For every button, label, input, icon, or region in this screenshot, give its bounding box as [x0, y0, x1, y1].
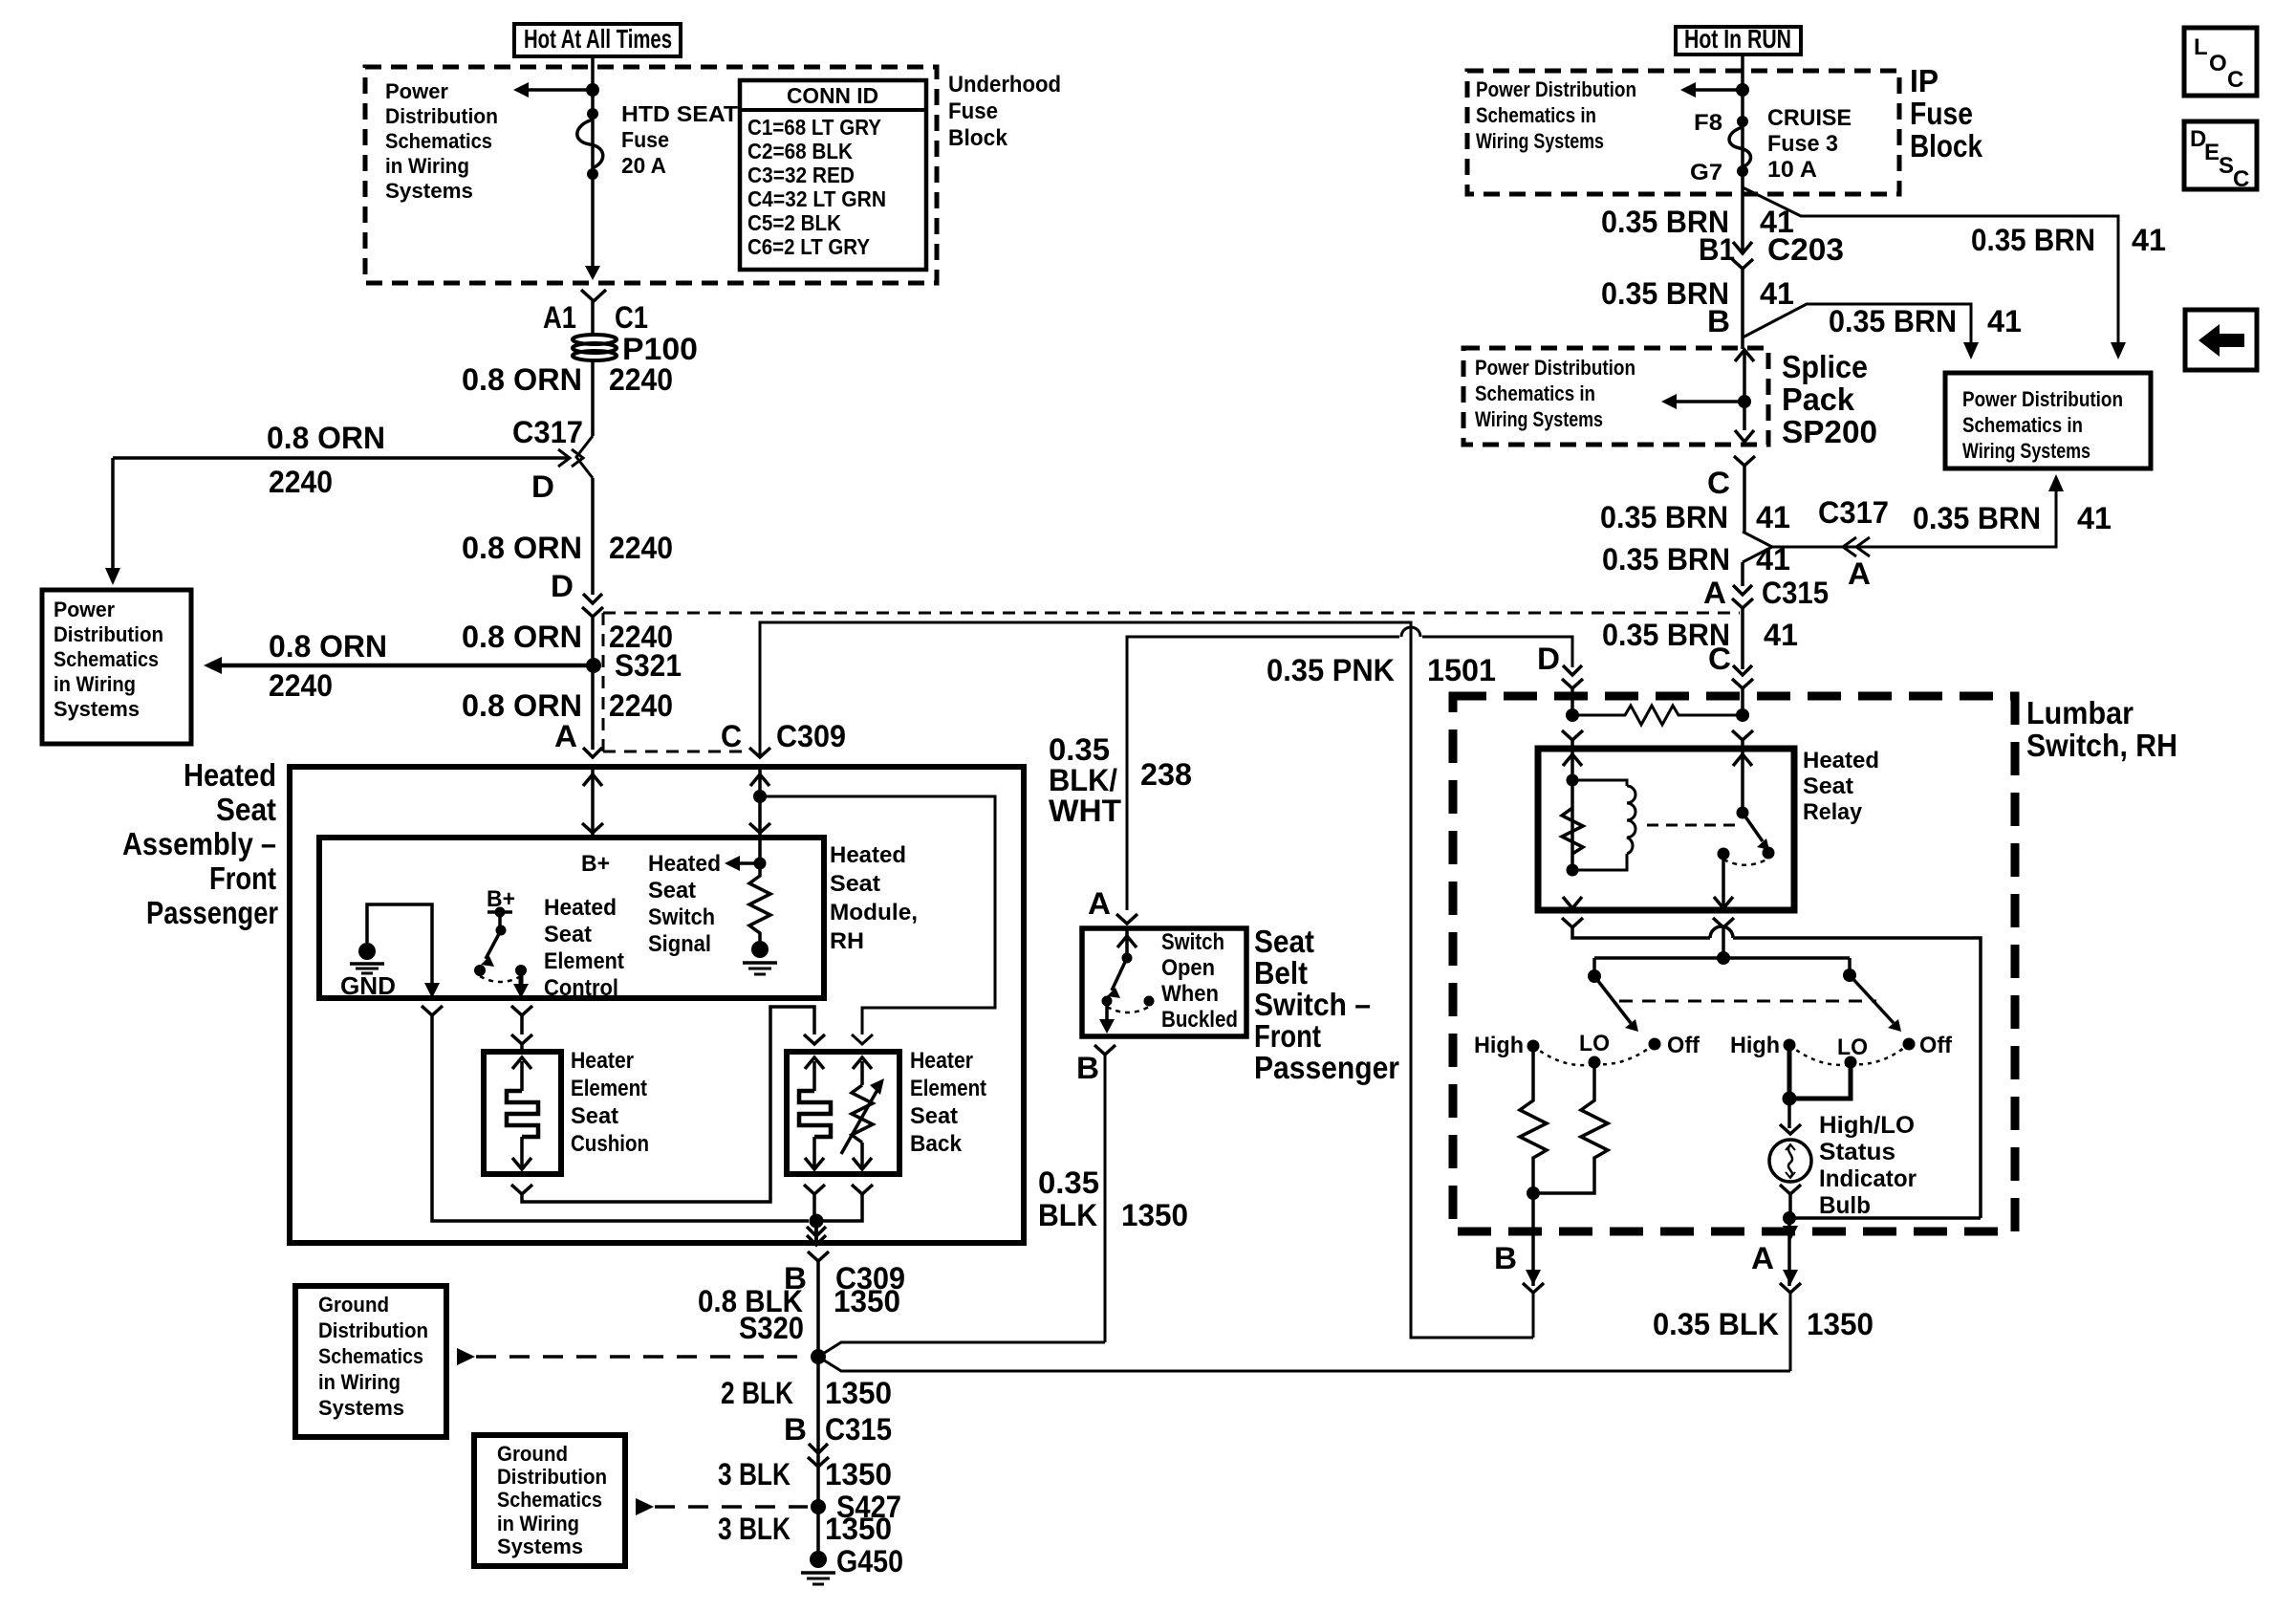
svg-text:0.8 ORN: 0.8 ORN: [462, 362, 582, 397]
svg-text:3 BLK: 3 BLK: [718, 1457, 791, 1491]
svg-text:A: A: [1703, 576, 1726, 610]
svg-text:B+: B+: [581, 851, 610, 877]
connector C315 pin B: [784, 1412, 892, 1467]
wire: bulb return: [1780, 1185, 1981, 1225]
svg-text:Heated: Heated: [830, 842, 906, 868]
svg-text:Fuse: Fuse: [948, 98, 998, 124]
svg-text:0.8 ORN: 0.8 ORN: [269, 629, 387, 664]
svg-text:1501: 1501: [1427, 653, 1496, 687]
wire: B branch to power distribution: [1707, 304, 2022, 359]
svg-text:P100: P100: [622, 332, 698, 366]
svg-text:Assembly –: Assembly –: [122, 826, 276, 861]
svg-text:1350: 1350: [825, 1457, 892, 1491]
svg-text:Front: Front: [209, 860, 276, 896]
svg-text:C6=2 LT GRY: C6=2 LT GRY: [747, 234, 870, 259]
value label: 0.8 ORN 2240: [462, 620, 673, 654]
svg-text:Power: Power: [385, 79, 448, 103]
svg-text:L: L: [2194, 34, 2208, 60]
svg-text:Distribution: Distribution: [385, 104, 498, 128]
svg-text:Fuse: Fuse: [621, 127, 669, 152]
connector: lumbar pin D: [1537, 642, 1583, 688]
svg-text:Bulb: Bulb: [1819, 1192, 1871, 1219]
svg-text:C1=68 LT GRY: C1=68 LT GRY: [747, 115, 881, 140]
wire: [1741, 608, 1744, 669]
svg-text:in Wiring: in Wiring: [54, 672, 136, 696]
svg-text:CRUISE: CRUISE: [1767, 105, 1852, 131]
component box: Heated Seat Module RH: [319, 838, 918, 998]
relay coil branch: [1562, 749, 1635, 908]
value label: 2 BLK 1350: [721, 1376, 892, 1410]
value label: 0.8 ORN 2240 (left branch): [267, 421, 385, 499]
switch positions right: High LO Off: [1730, 1033, 1953, 1069]
svg-text:in Wiring: in Wiring: [497, 1512, 579, 1535]
svg-text:Power Distribution: Power Distribution: [1476, 77, 1636, 101]
svg-text:B: B: [1076, 1051, 1099, 1085]
connector pin D (C309 harness): [551, 569, 603, 617]
wire: GND return: [367, 904, 440, 998]
wire: dashed lead to S427: [636, 1498, 808, 1515]
node: fuse block tap: [586, 83, 599, 97]
IP Fuse Block dashed box: [1467, 71, 1899, 194]
svg-text:Open: Open: [1161, 955, 1215, 981]
svg-text:Splice: Splice: [1782, 349, 1868, 384]
Splice Pack dashed box: [1463, 348, 1768, 445]
label: Heated Seat Switch Signal: [648, 851, 721, 957]
note: Power Distribution Schematics in Wiring Systems (underhood): [385, 79, 498, 203]
switch: left mode selector: [1594, 976, 1876, 1032]
note box: Ground Distribution Schematics in Wiring Systems (upper): [295, 1286, 446, 1437]
svg-text:HTD SEAT: HTD SEAT: [621, 101, 738, 126]
value label: 0.35 BLK/WHT 238: [1049, 732, 1192, 828]
svg-text:Relay: Relay: [1803, 799, 1863, 825]
svg-text:SP200: SP200: [1782, 414, 1877, 449]
wire: [591, 478, 595, 595]
svg-text:1350: 1350: [825, 1512, 892, 1546]
svg-text:Underhood: Underhood: [948, 72, 1061, 98]
svg-text:C1: C1: [615, 300, 648, 335]
svg-text:2240: 2240: [609, 688, 673, 723]
svg-text:BLK/: BLK/: [1049, 763, 1117, 797]
svg-text:Seat: Seat: [830, 871, 880, 897]
svg-text:Systems: Systems: [318, 1396, 404, 1420]
splice S320: [739, 1311, 826, 1364]
svg-text:C315: C315: [1762, 576, 1829, 610]
svg-text:0.8 ORN: 0.8 ORN: [267, 421, 385, 455]
wire: cushion return to seat back: [511, 1007, 825, 1202]
ground: GND pin: [340, 943, 396, 1000]
label box: Hot In RUN: [1676, 24, 1801, 54]
wire: [591, 301, 595, 335]
svg-text:0.8 ORN: 0.8 ORN: [462, 620, 582, 654]
svg-text:Systems: Systems: [54, 697, 140, 721]
svg-text:41: 41: [1987, 304, 2022, 338]
svg-text:238: 238: [1140, 757, 1192, 792]
wire: switch signal into module: [749, 767, 995, 1044]
ground: module internal: [743, 941, 777, 974]
connector C317 pin A (right branch): [1743, 474, 2112, 591]
svg-text:0.35 BLK: 0.35 BLK: [1653, 1307, 1779, 1341]
svg-text:Wiring Systems: Wiring Systems: [1475, 407, 1603, 431]
node: D junction: [1566, 708, 1579, 722]
svg-text:D: D: [1537, 642, 1560, 676]
svg-text:Ground: Ground: [497, 1442, 568, 1466]
svg-text:C2=68 BLK: C2=68 BLK: [747, 139, 853, 163]
fuse: CRUISE Fuse 3 10 A: [1690, 105, 1852, 185]
svg-text:Power Distribution: Power Distribution: [1962, 387, 2123, 411]
label: Seat Belt Switch Front Passenger: [1254, 924, 1399, 1085]
svg-text:1350: 1350: [1121, 1198, 1188, 1232]
CONN ID table: [740, 80, 926, 270]
svg-text:G7: G7: [1690, 160, 1722, 185]
svg-text:C: C: [1708, 642, 1731, 676]
svg-text:B: B: [1707, 304, 1730, 338]
Underhood Fuse Block dashed box: [365, 67, 937, 283]
switch positions left: High LO Off: [1474, 1031, 1700, 1069]
wire: [591, 360, 595, 436]
svg-text:IP: IP: [1910, 63, 1939, 98]
svg-text:Switch: Switch: [1161, 929, 1224, 955]
svg-text:Heater: Heater: [910, 1048, 973, 1074]
svg-text:Heated: Heated: [648, 851, 721, 877]
svg-text:1350: 1350: [834, 1284, 900, 1318]
svg-text:Schematics in: Schematics in: [1962, 413, 2083, 437]
wire: 0.8 BLK 1350: [698, 1261, 900, 1566]
bulb: High/LO status indicator: [1769, 1112, 1917, 1219]
wire: relay output to mode switches: [1588, 918, 1856, 983]
resistor: LO feed: [1533, 1062, 1608, 1193]
wire: High2/LO2 join to bulb: [1780, 1045, 1851, 1134]
connector C309 pin C: [721, 719, 846, 757]
svg-text:Status: Status: [1819, 1139, 1895, 1165]
svg-text:0.8 ORN: 0.8 ORN: [462, 531, 582, 565]
svg-text:Element: Element: [544, 948, 624, 974]
svg-text:Back: Back: [910, 1131, 963, 1157]
resistor: High feed: [1520, 1046, 1547, 1193]
label box: Hot At All Times: [514, 24, 681, 56]
svg-text:Element: Element: [571, 1076, 647, 1101]
svg-text:C203: C203: [1767, 232, 1844, 267]
svg-text:F8: F8: [1694, 110, 1722, 136]
svg-text:0.35 BRN: 0.35 BRN: [1600, 500, 1728, 534]
svg-text:O: O: [2209, 51, 2227, 76]
node: IP tap: [1736, 83, 1749, 97]
svg-text:C315: C315: [825, 1412, 892, 1447]
wire: [1741, 562, 1744, 586]
note box: Ground Distribution Schematics in Wiring Systems (lower): [474, 1435, 625, 1566]
wire: circuit 1501 from C309-C to lumbar B: [760, 622, 1533, 1338]
switch: heated seat element control: [474, 886, 529, 998]
svg-text:0.8 ORN: 0.8 ORN: [462, 688, 582, 723]
value label: 0.35 BRN 41: [1602, 618, 1798, 652]
svg-text:A: A: [1088, 886, 1111, 921]
svg-text:C317: C317: [1818, 495, 1889, 530]
svg-text:Schematics: Schematics: [385, 129, 492, 153]
svg-text:Heated: Heated: [544, 895, 617, 921]
wire: [1741, 187, 1744, 251]
svg-text:in Wiring: in Wiring: [385, 154, 469, 178]
wire: lumbar pin A exit: [1751, 1218, 1801, 1371]
resistor: module pull-up: [749, 863, 770, 941]
svg-text:GND: GND: [340, 971, 396, 1000]
wire: seat back returns join: [804, 1185, 873, 1221]
svg-text:0.35 BRN: 0.35 BRN: [1602, 542, 1730, 577]
svg-text:0.35 BRN: 0.35 BRN: [1971, 223, 2095, 257]
value label: 0.35 BRN 41: [1601, 276, 1794, 311]
connector C1 pin A1: [543, 290, 648, 335]
value label: 0.8 ORN 2240: [462, 531, 673, 565]
wire: arrow to power distribution: [513, 82, 587, 98]
svg-text:When: When: [1161, 981, 1219, 1007]
wire: arrow to power distribution (IP): [1680, 82, 1737, 98]
svg-text:Off: Off: [1919, 1033, 1953, 1058]
label: Heated Seat Element Control: [544, 895, 624, 1001]
svg-text:Fuse: Fuse: [1910, 96, 1973, 131]
svg-text:20 A: 20 A: [621, 153, 666, 178]
svg-text:Seat: Seat: [910, 1103, 958, 1129]
svg-text:Heated: Heated: [1803, 748, 1879, 773]
svg-text:0.35 BRN: 0.35 BRN: [1913, 501, 2041, 535]
connector: seat belt switch pin A: [1088, 886, 1137, 924]
svg-text:Heated: Heated: [184, 757, 276, 793]
svg-text:C: C: [1707, 466, 1730, 500]
svg-text:Schematics: Schematics: [497, 1488, 602, 1512]
svg-text:B: B: [784, 1412, 807, 1447]
svg-text:RH: RH: [830, 928, 864, 954]
note box: Power Distribution Schematics in Wiring Systems (right): [1945, 373, 2151, 468]
value label: 0.35 BLK 1350 (lumbar A): [1653, 1307, 1874, 1341]
svg-text:C3=32 RED: C3=32 RED: [747, 163, 855, 187]
resistor: across relay coil inputs: [1572, 706, 1743, 725]
heater element: seat cushion: [507, 1057, 538, 1169]
svg-text:D: D: [551, 569, 574, 603]
svg-text:A: A: [1751, 1241, 1774, 1275]
wire: S321 arrow to power distribution: [204, 629, 594, 703]
svg-text:Wiring Systems: Wiring Systems: [1476, 129, 1604, 153]
svg-text:1350: 1350: [1807, 1307, 1874, 1341]
grommet P100: [573, 332, 698, 366]
svg-text:0.35: 0.35: [1038, 1165, 1099, 1200]
wire: GND return to splice: [422, 1006, 809, 1221]
svg-text:3 BLK: 3 BLK: [718, 1512, 791, 1546]
svg-text:LO: LO: [1579, 1031, 1610, 1056]
svg-text:S: S: [2219, 153, 2234, 179]
svg-text:Seat: Seat: [1803, 773, 1853, 799]
wire: [591, 617, 595, 750]
note box: Power Distribution Schematics in Wiring Systems (left): [42, 590, 191, 744]
component box: Heater Element Seat Back: [787, 1048, 986, 1174]
svg-text:Seat: Seat: [544, 922, 592, 947]
pin label B+: [581, 851, 610, 877]
node: assembly ground junction: [810, 1214, 824, 1229]
note: Power Distribution Schematics in Wiring Systems (IP): [1476, 77, 1636, 153]
component dashed box: Lumbar Switch RH: [1453, 695, 2177, 1231]
svg-text:C: C: [2233, 166, 2249, 192]
wire: hot feed vertical: [585, 56, 600, 280]
svg-text:41: 41: [2077, 501, 2112, 535]
svg-text:Fuse 3: Fuse 3: [1767, 131, 1838, 157]
connector: splice pack pin C: [1707, 456, 1755, 532]
svg-text:2240: 2240: [609, 362, 673, 397]
svg-text:Module,: Module,: [830, 900, 918, 925]
svg-text:41: 41: [1764, 618, 1798, 652]
svg-text:2240: 2240: [609, 531, 673, 565]
svg-text:Ground: Ground: [318, 1293, 389, 1317]
svg-text:C4=32 LT GRN: C4=32 LT GRN: [747, 186, 886, 211]
svg-text:E: E: [2204, 140, 2220, 165]
node: C junction: [1736, 708, 1749, 722]
svg-text:0.35: 0.35: [1049, 732, 1110, 767]
svg-text:Cushion: Cushion: [571, 1131, 649, 1157]
svg-text:BLK: BLK: [1038, 1198, 1097, 1232]
svg-text:Signal: Signal: [648, 931, 711, 957]
splice S427: [811, 1490, 901, 1524]
svg-text:Passenger: Passenger: [1254, 1050, 1399, 1085]
svg-text:Lumbar: Lumbar: [2026, 695, 2134, 730]
value label: 3 BLK 1350: [718, 1512, 892, 1546]
label: Splice Pack SP200: [1782, 349, 1877, 449]
wire: [1741, 280, 1744, 349]
svg-text:B1: B1: [1699, 232, 1735, 267]
connector C203 pin B1: [1699, 232, 1844, 280]
svg-text:G450: G450: [836, 1544, 903, 1578]
svg-text:Front: Front: [1254, 1018, 1321, 1054]
wire: switch signal arrow inside module: [725, 838, 767, 871]
locator box LOC: [2184, 28, 2257, 96]
svg-text:Seat: Seat: [648, 878, 696, 903]
svg-text:C: C: [2227, 67, 2243, 93]
svg-text:10 A: 10 A: [1767, 157, 1817, 183]
wire: dashed lead to S320: [457, 1348, 808, 1365]
svg-text:Hot At All Times: Hot At All Times: [524, 24, 672, 54]
connector: lumbar pin C: [1708, 642, 1753, 688]
connector C317 pin D (left branch): [113, 415, 593, 504]
svg-text:41: 41: [1756, 500, 1790, 534]
svg-text:41: 41: [1760, 276, 1794, 311]
heater element: seat back: [799, 1057, 831, 1169]
svg-text:C317: C317: [512, 415, 583, 449]
label: IP Fuse Block: [1910, 63, 1983, 163]
svg-text:A: A: [1848, 556, 1871, 591]
switch: right mode selector: [1850, 975, 1901, 1032]
wire: circuit 238: [1127, 627, 1572, 910]
svg-text:Distribution: Distribution: [318, 1318, 428, 1342]
svg-text:1350: 1350: [825, 1376, 892, 1410]
svg-text:S320: S320: [739, 1311, 804, 1345]
svg-text:High: High: [1730, 1033, 1780, 1058]
component box: Heated Seat Assembly Front Passenger: [122, 757, 1024, 1243]
svg-text:B: B: [1494, 1241, 1517, 1275]
svg-text:Indicator: Indicator: [1819, 1165, 1917, 1192]
thermistor: seat back sensor: [841, 1057, 884, 1169]
svg-text:41: 41: [1756, 542, 1790, 577]
svg-text:Switch –: Switch –: [1254, 987, 1371, 1022]
svg-text:Switch: Switch: [648, 904, 715, 930]
component box: Seat Belt Switch: [1082, 928, 1246, 1036]
label: Underhood Fuse Block: [948, 72, 1061, 151]
switch: open when buckled: [1099, 928, 1155, 1034]
svg-text:Schematics: Schematics: [54, 647, 159, 671]
svg-text:CONN ID: CONN ID: [787, 83, 878, 108]
svg-text:2240: 2240: [269, 465, 333, 499]
wire: [1572, 688, 1743, 715]
connector C315 pin A: [1703, 576, 1829, 610]
wire: relay coil return: [1562, 918, 1981, 1218]
value label: 0.35 BRN 41: [1602, 542, 1790, 577]
svg-text:WHT: WHT: [1049, 794, 1121, 828]
svg-text:Pack: Pack: [1782, 381, 1855, 417]
svg-text:Block: Block: [948, 125, 1008, 151]
svg-text:0.35 PNK: 0.35 PNK: [1267, 653, 1395, 687]
svg-text:High: High: [1474, 1033, 1524, 1058]
wire: element control to cushion: [511, 1006, 532, 1050]
wire: branch to right power distribution: [1743, 187, 2166, 359]
svg-text:Off: Off: [1667, 1033, 1700, 1058]
svg-text:High/LO: High/LO: [1819, 1112, 1915, 1139]
svg-text:41: 41: [2132, 223, 2166, 257]
svg-text:in Wiring: in Wiring: [318, 1370, 401, 1394]
value label: 0.35 BRN 41: [1601, 205, 1794, 239]
value label: 0.8 ORN 2240: [462, 688, 673, 723]
svg-text:Seat: Seat: [571, 1103, 618, 1129]
wire: dashed harness outline: [603, 613, 1740, 751]
svg-text:Buckled: Buckled: [1161, 1007, 1238, 1033]
wire: branch down to power distribution box: [105, 458, 120, 585]
component box: Heated Seat Relay: [1538, 748, 1879, 910]
wire: run feed vertical: [1741, 54, 1744, 187]
svg-text:C309: C309: [776, 719, 846, 753]
value label: 0.35 BRN 41: [1600, 500, 1790, 534]
wire: assembly ground exit: [807, 1221, 826, 1245]
svg-text:Wiring Systems: Wiring Systems: [1962, 439, 2090, 463]
connector: seat belt switch pin B: [1076, 1045, 1116, 1085]
svg-text:Passenger: Passenger: [146, 895, 278, 930]
component box: Heater Element Seat Cushion: [484, 1048, 649, 1174]
svg-text:Belt: Belt: [1254, 955, 1308, 991]
wire: S320 branch to lumbar A: [818, 1357, 1790, 1371]
wire: S320 branch to seat belt switch: [818, 1342, 1105, 1357]
ground G450: [801, 1544, 903, 1584]
svg-text:Control: Control: [544, 975, 618, 1001]
svg-text:D: D: [531, 469, 554, 504]
svg-text:2 BLK: 2 BLK: [721, 1376, 793, 1410]
locator box: back arrow: [2185, 310, 2257, 370]
svg-text:C: C: [721, 719, 742, 753]
value label: 3 BLK 1350: [718, 1457, 892, 1491]
relay switch branch: [1647, 749, 1775, 908]
splice pack SP200 internals: [1661, 350, 1754, 442]
svg-text:Distribution: Distribution: [497, 1465, 607, 1489]
svg-text:Heater: Heater: [571, 1048, 634, 1074]
svg-text:Hot In RUN: Hot In RUN: [1684, 24, 1791, 54]
wire: into relay: [1562, 730, 1753, 749]
svg-text:Schematics: Schematics: [318, 1344, 423, 1368]
value label: 0.8 ORN 2240: [462, 362, 673, 397]
locator box DESC: [2184, 121, 2257, 192]
wire: B+ feed into module: [582, 767, 603, 838]
connector C309 pin A: [554, 719, 602, 757]
svg-text:2240: 2240: [269, 668, 333, 703]
svg-text:S321: S321: [615, 648, 682, 683]
svg-text:0.35 BRN: 0.35 BRN: [1829, 304, 1957, 338]
svg-text:Distribution: Distribution: [54, 622, 163, 646]
svg-text:C5=2 BLK: C5=2 BLK: [747, 210, 841, 235]
svg-text:Power: Power: [54, 598, 115, 621]
svg-text:Switch, RH: Switch, RH: [2026, 728, 2177, 763]
svg-text:A: A: [554, 719, 577, 753]
wire: lumbar pin B exit: [1494, 1193, 1544, 1338]
fuse F: HTD SEAT Fuse 20 A: [577, 101, 738, 180]
label: Switch Open When Buckled: [1161, 929, 1238, 1033]
